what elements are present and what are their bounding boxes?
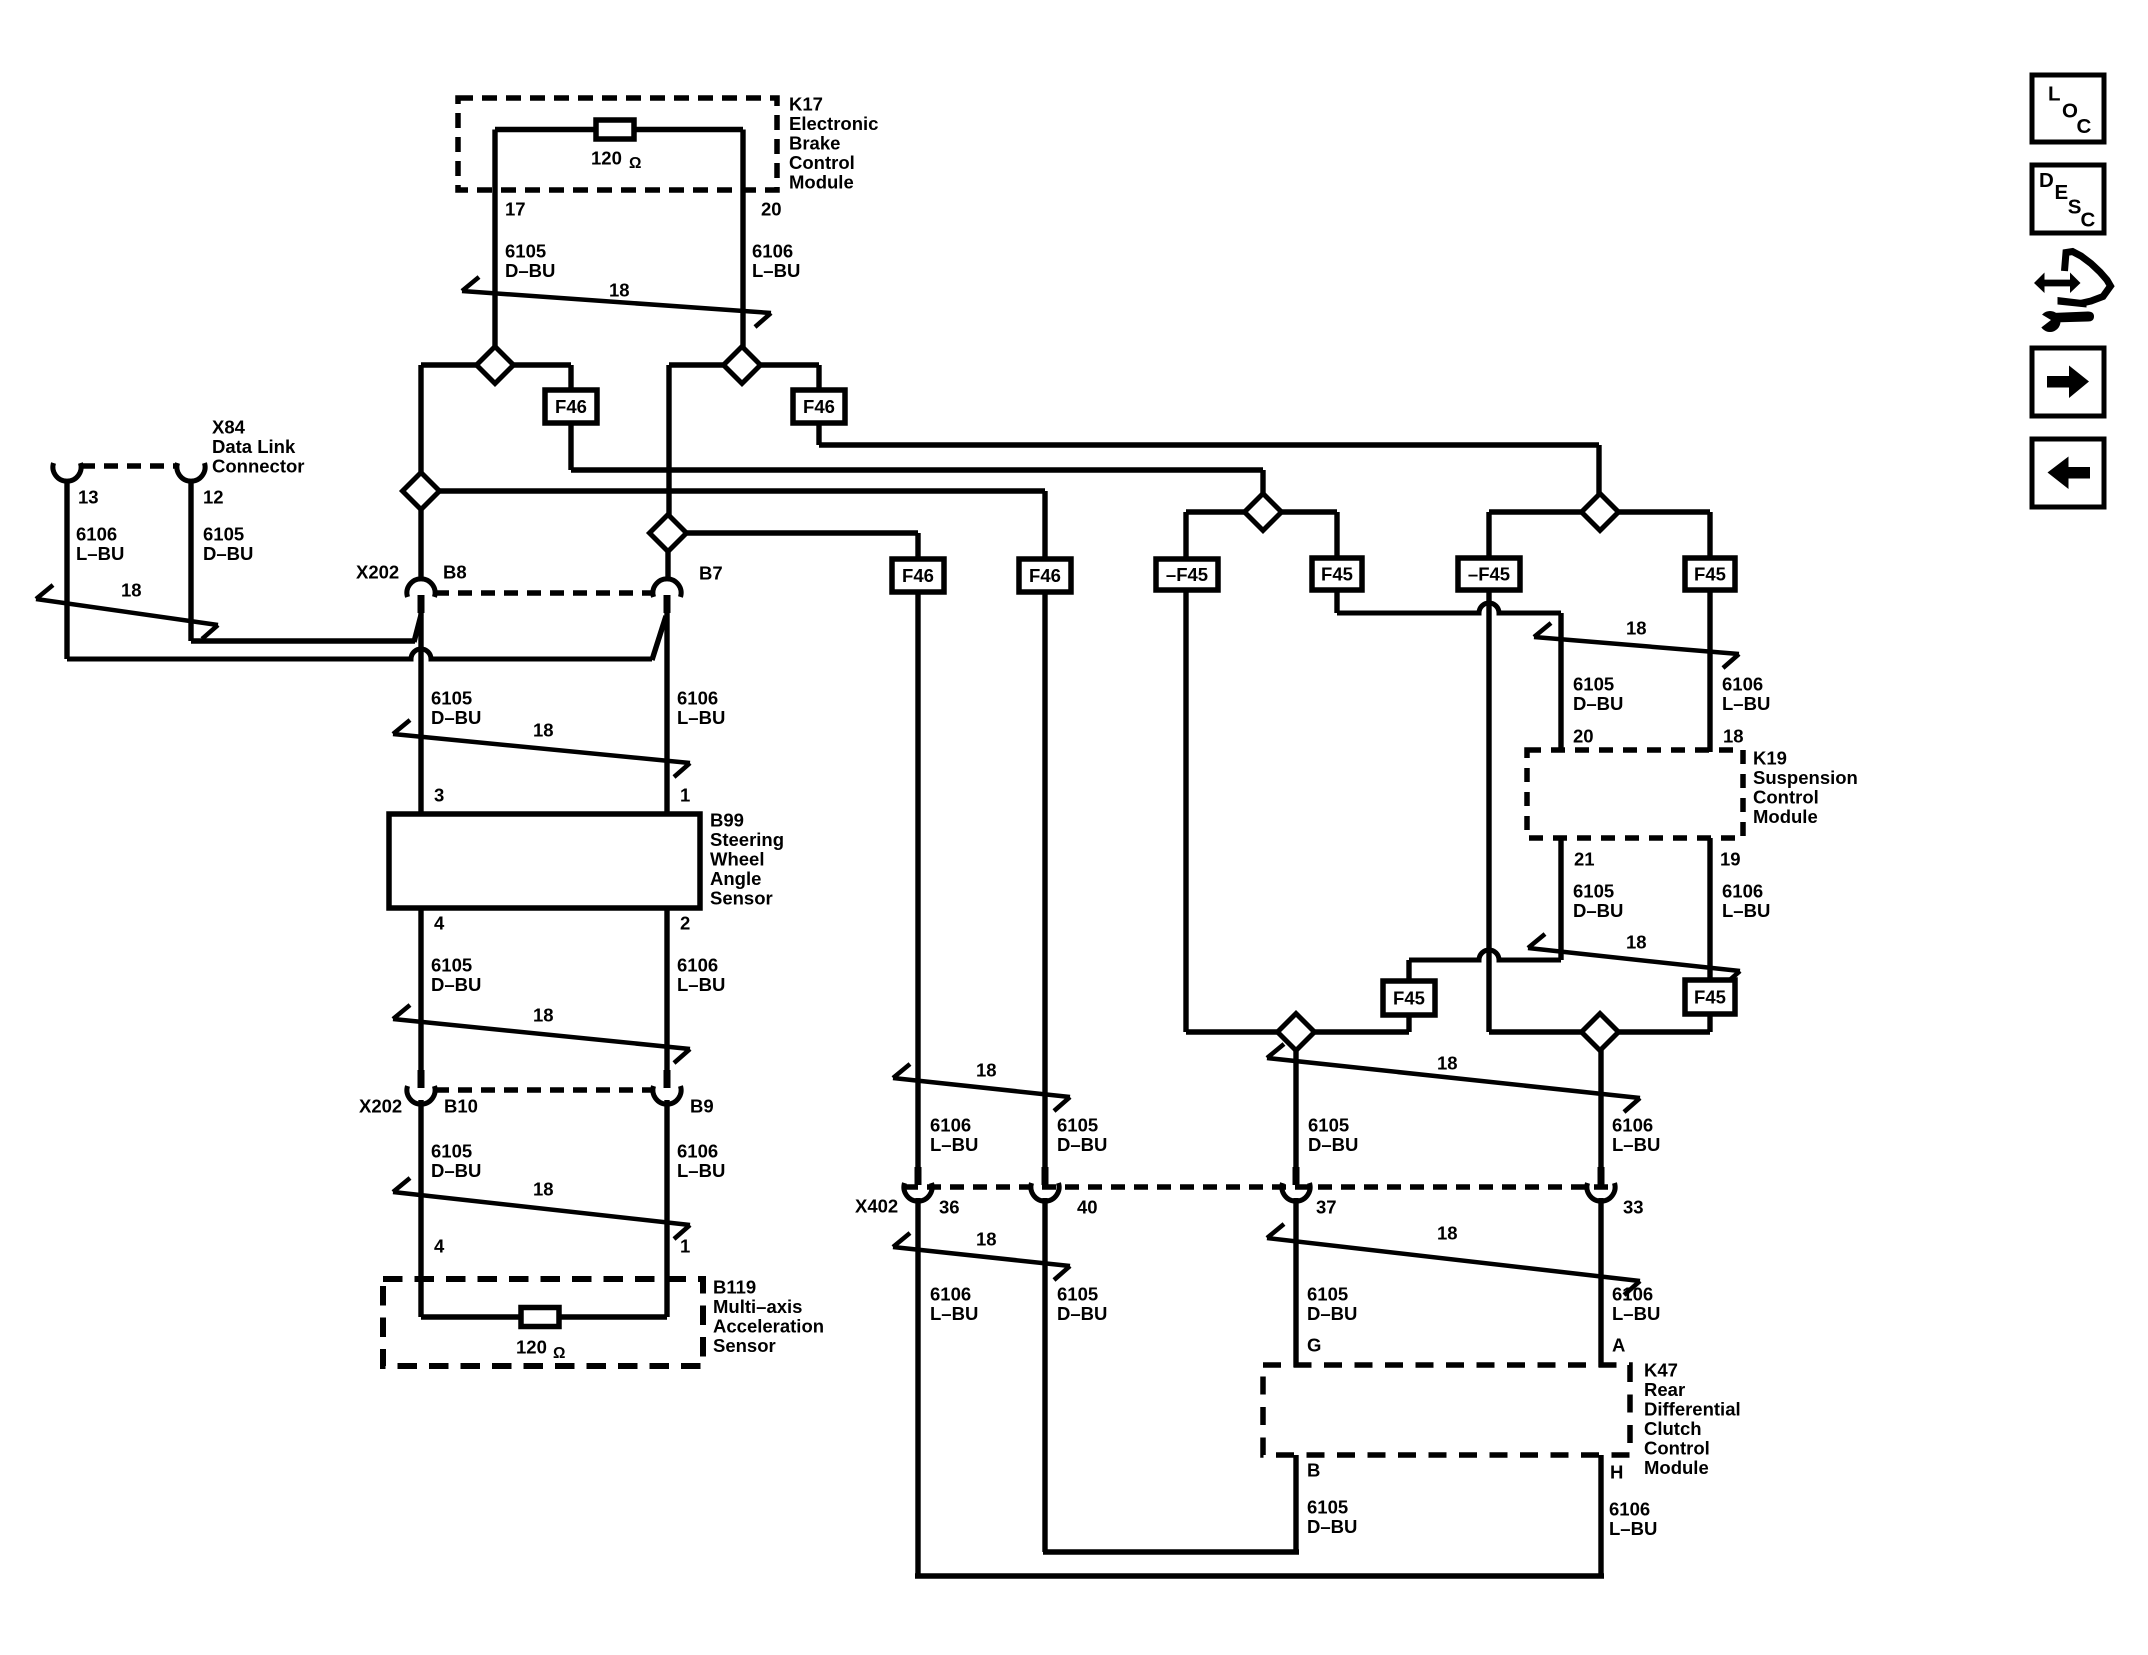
- svg-text:18: 18: [976, 1228, 997, 1249]
- fuse tag F45 (f): [1685, 980, 1735, 1014]
- gauge marker 18 (K17 wires): [462, 277, 771, 327]
- fuse tag F45 (b): [1312, 558, 1362, 590]
- svg-text:120: 120: [591, 147, 622, 168]
- svg-text:B10: B10: [444, 1095, 478, 1116]
- svg-text:L–BU: L–BU: [677, 707, 725, 728]
- svg-text:Ω: Ω: [553, 1345, 565, 1362]
- svg-text:S: S: [2068, 195, 2082, 218]
- wire S4 down to X202 B7: [665, 551, 670, 580]
- svg-text:Wheel: Wheel: [710, 848, 764, 869]
- svg-text:Brake: Brake: [789, 132, 840, 153]
- svg-text:6105: 6105: [1307, 1496, 1348, 1517]
- svg-text:Acceleration: Acceleration: [713, 1315, 824, 1336]
- svg-text:E: E: [2055, 181, 2069, 204]
- connector X202 pin B10 cup: [418, 1070, 425, 1088]
- splice diamond S3: [403, 473, 440, 510]
- svg-text:36: 36: [939, 1196, 960, 1217]
- module K47 Rear Differential Clutch Control Module (dashed outline): [1263, 1365, 1630, 1455]
- wire S3 down to X202 B8: [418, 509, 423, 580]
- svg-text:F45: F45: [1393, 988, 1425, 1009]
- wire -F45-c run to splice S8: [1489, 1029, 1582, 1034]
- svg-text:L: L: [2048, 83, 2061, 106]
- svg-text:13: 13: [78, 486, 99, 507]
- svg-text:B7: B7: [699, 562, 723, 583]
- icon forward arrow box: [2032, 348, 2104, 416]
- wire splice S6 right branch to F45-d: [1618, 509, 1710, 514]
- svg-text:18: 18: [1437, 1222, 1458, 1243]
- icon vehicle-connector with wrench: [2034, 273, 2081, 294]
- connector X402 dashed link: [904, 1184, 1617, 1190]
- svg-text:18: 18: [609, 279, 630, 300]
- splice diamond S6: [1582, 494, 1619, 531]
- fuse tag F46 (C): [892, 559, 944, 592]
- connector X402 pin 33 cup: [1598, 1167, 1605, 1185]
- svg-text:6106: 6106: [1722, 880, 1763, 901]
- wire splice S5 right branch to F45-b: [1281, 509, 1337, 514]
- svg-text:6106: 6106: [1722, 673, 1763, 694]
- wire 6106 L-BU from X84 pin 13: [64, 480, 69, 659]
- gauge marker 18 (above B119): [393, 1178, 690, 1239]
- svg-text:Control: Control: [1644, 1437, 1710, 1458]
- wire F45-b to K19 pin 20 (hops -F45-c wire): [1334, 590, 1339, 613]
- svg-text:F45: F45: [1694, 987, 1726, 1008]
- wire splice S1 right branch to F46-A: [511, 362, 571, 367]
- svg-text:Angle: Angle: [710, 868, 761, 889]
- wire S8 down to X402 pin 33: [1598, 1050, 1603, 1169]
- wire K47 pin H down-left to X402-36 line: [1598, 1455, 1603, 1576]
- svg-text:L–BU: L–BU: [1612, 1303, 1660, 1324]
- svg-text:18: 18: [533, 1004, 554, 1025]
- wire 6106 L-BU F46-C to X402 pin 36: [915, 592, 920, 1169]
- connector X402 pin 36 cup: [915, 1167, 922, 1185]
- svg-text:6106: 6106: [677, 1140, 718, 1161]
- svg-text:L–BU: L–BU: [930, 1303, 978, 1324]
- wire splice S2 right branch to F46-B: [758, 362, 819, 367]
- svg-text:G: G: [1307, 1334, 1321, 1355]
- wire from F46-A down and right to splice S5: [568, 423, 573, 470]
- svg-text:X202: X202: [356, 561, 399, 582]
- svg-text:6106: 6106: [677, 954, 718, 975]
- resistor 120 ohm inside B119: [521, 1308, 559, 1327]
- svg-text:6106: 6106: [1609, 1498, 1650, 1519]
- gauge marker 18 (above X402 left): [893, 1064, 1070, 1111]
- wire 6105 D-BU from X84 pin 12: [188, 480, 193, 641]
- svg-text:D–BU: D–BU: [431, 974, 481, 995]
- svg-text:18: 18: [976, 1059, 997, 1080]
- fuse tag F46 (A): [545, 390, 597, 423]
- wire 6106 L-BU X202 B7 to B99 pin 1: [664, 613, 669, 816]
- splice diamond S4: [650, 515, 687, 552]
- gauge marker 18 (above X402 right): [1267, 1044, 1640, 1112]
- wire X402 pin 40 down (6105 D-BU): [1042, 1198, 1047, 1552]
- svg-text:6106: 6106: [1612, 1114, 1653, 1135]
- wire K19 pin 21 to F45-e (hops -F45-c wire): [1558, 838, 1563, 960]
- module K19 Suspension Control Module (dashed outline): [1527, 750, 1743, 838]
- svg-text:D–BU: D–BU: [1308, 1134, 1358, 1155]
- fuse tag -F45 (c): [1458, 558, 1520, 590]
- svg-text:6105: 6105: [203, 523, 244, 544]
- svg-text:18: 18: [1437, 1052, 1458, 1073]
- component B119 Multi-axis Acceleration Sensor (dashed box): [383, 1279, 703, 1366]
- svg-text:F46: F46: [902, 565, 934, 586]
- svg-text:C: C: [2081, 209, 2096, 232]
- wire B119 internal right: [559, 1314, 667, 1319]
- gauge marker 18 (below X402 left): [893, 1233, 1070, 1280]
- svg-text:L–BU: L–BU: [930, 1134, 978, 1155]
- svg-text:K47: K47: [1644, 1359, 1678, 1380]
- svg-text:Clutch: Clutch: [1644, 1418, 1702, 1439]
- fuse tag -F45 (a): [1156, 559, 1218, 590]
- svg-text:Control: Control: [789, 152, 855, 173]
- gauge marker 18 (below K19): [1528, 934, 1740, 985]
- svg-text:D–BU: D–BU: [505, 260, 555, 281]
- wire B119 internal left: [421, 1314, 521, 1319]
- svg-text:B119: B119: [713, 1276, 756, 1297]
- svg-text:F45: F45: [1694, 564, 1726, 585]
- svg-text:L–BU: L–BU: [1722, 900, 1770, 921]
- component B99 Steering Wheel Angle Sensor (box): [389, 814, 700, 908]
- svg-text:L–BU: L–BU: [677, 1160, 725, 1181]
- fuse tag F46 (B): [793, 390, 845, 423]
- svg-text:C: C: [2077, 115, 2092, 138]
- splice diamond S1: [477, 347, 514, 384]
- wire X402 pin 36 down (6106 L-BU): [915, 1198, 920, 1576]
- svg-text:21: 21: [1574, 848, 1595, 869]
- svg-text:B: B: [1307, 1459, 1320, 1480]
- svg-text:20: 20: [1573, 725, 1594, 746]
- splice diamond S5: [1245, 494, 1282, 531]
- wire S2 branch down (6106 bus): [666, 365, 671, 517]
- wire S1 branch down to splice S3: [418, 365, 423, 475]
- connector X202 pin B9 cup: [664, 1070, 671, 1088]
- svg-text:B9: B9: [690, 1095, 714, 1116]
- svg-text:6106: 6106: [1612, 1283, 1653, 1304]
- svg-text:6106: 6106: [677, 687, 718, 708]
- svg-text:L–BU: L–BU: [1722, 693, 1770, 714]
- svg-text:D–BU: D–BU: [1307, 1516, 1357, 1537]
- svg-text:X202: X202: [359, 1095, 402, 1116]
- splice diamond S2: [724, 347, 761, 384]
- connector X202 pin B8 cup: [418, 595, 425, 613]
- wire splice S5 left branch to -F45-a: [1186, 509, 1245, 514]
- wire S7 down to X402 pin 37: [1293, 1050, 1298, 1169]
- gauge marker 18 (X84 wires): [36, 585, 218, 639]
- svg-text:F46: F46: [803, 396, 835, 417]
- svg-text:Sensor: Sensor: [713, 1335, 776, 1356]
- svg-text:18: 18: [533, 719, 554, 740]
- connector X84 pin 13 cup: [53, 463, 81, 481]
- svg-text:Multi–axis: Multi–axis: [713, 1296, 802, 1317]
- svg-text:4: 4: [434, 912, 445, 933]
- svg-text:D: D: [2039, 169, 2054, 192]
- svg-text:6106: 6106: [930, 1114, 971, 1135]
- module K17 Electronic Brake Control Module (dashed outline): [458, 98, 777, 190]
- svg-text:3: 3: [434, 784, 444, 805]
- gauge marker 18 (below X402 right): [1267, 1224, 1640, 1295]
- svg-text:L–BU: L–BU: [76, 543, 124, 564]
- svg-text:6105: 6105: [505, 240, 546, 261]
- gauge marker 18 (above B99): [393, 720, 690, 777]
- svg-text:33: 33: [1623, 1196, 1644, 1217]
- wire 6106 L-BU X202 B9 to B119 pin 1: [664, 1100, 669, 1317]
- svg-text:Rear: Rear: [1644, 1379, 1685, 1400]
- svg-text:Module: Module: [1753, 806, 1818, 827]
- svg-text:18: 18: [1626, 931, 1647, 952]
- svg-text:L–BU: L–BU: [1612, 1134, 1660, 1155]
- wire -F45-a run to splice S7: [1186, 1029, 1278, 1034]
- splice diamond S7: [1278, 1014, 1315, 1051]
- svg-text:Module: Module: [789, 171, 854, 192]
- svg-text:6105: 6105: [1057, 1283, 1098, 1304]
- fuse tag F45 (e): [1383, 981, 1435, 1015]
- svg-text:D–BU: D–BU: [1057, 1134, 1107, 1155]
- connector X402 pin 40 cup: [1042, 1167, 1049, 1185]
- wire 6105 D-BU X202 B8 to B99 pin 3: [418, 613, 423, 816]
- svg-text:18: 18: [1723, 725, 1744, 746]
- svg-text:L–BU: L–BU: [752, 260, 800, 281]
- svg-text:D–BU: D–BU: [203, 543, 253, 564]
- svg-text:L–BU: L–BU: [1609, 1518, 1657, 1539]
- resistor 120 ohm inside K17: [596, 120, 634, 139]
- connector X202 pin B7 cup: [664, 595, 671, 613]
- svg-text:6106: 6106: [76, 523, 117, 544]
- svg-text:Electronic: Electronic: [789, 113, 878, 134]
- svg-text:Module: Module: [1644, 1457, 1709, 1478]
- svg-text:A: A: [1612, 1334, 1625, 1355]
- svg-text:L–BU: L–BU: [677, 974, 725, 995]
- wire 6105 D-BU F46-D to X402 pin 40: [1042, 592, 1047, 1169]
- svg-text:120: 120: [516, 1336, 547, 1357]
- svg-text:B99: B99: [710, 809, 744, 830]
- svg-text:6105: 6105: [1308, 1114, 1349, 1135]
- svg-text:–F45: –F45: [1468, 564, 1510, 585]
- wire K17 internal left: [495, 127, 596, 132]
- wire X402 pin 37 to K47 pin G: [1293, 1198, 1298, 1367]
- wire -F45-a down to junction row: [1183, 590, 1188, 1032]
- wire -F45-c down to junction row (crossed twice): [1486, 590, 1491, 1032]
- svg-text:D–BU: D–BU: [1057, 1303, 1107, 1324]
- wire splice S3 right branch to F46-D: [421, 488, 1045, 493]
- svg-text:6105: 6105: [1057, 1114, 1098, 1135]
- svg-text:Suspension: Suspension: [1753, 767, 1858, 788]
- wire 6106 L-BU from K17 pin 20 down to splice S2: [740, 130, 745, 350]
- svg-text:D–BU: D–BU: [431, 707, 481, 728]
- splice diamond S8: [1582, 1014, 1619, 1051]
- connector X84 pin 12 cup: [177, 463, 205, 481]
- wire from F46-B down and right to splice S6: [816, 423, 821, 445]
- svg-text:6106: 6106: [930, 1283, 971, 1304]
- fuse tag F46 (D): [1019, 559, 1071, 592]
- gauge marker 18 (above K19): [1534, 623, 1739, 668]
- svg-text:2: 2: [680, 912, 690, 933]
- svg-text:17: 17: [505, 198, 526, 219]
- svg-text:Steering: Steering: [710, 829, 784, 850]
- svg-text:1: 1: [680, 784, 690, 805]
- svg-text:Sensor: Sensor: [710, 887, 773, 908]
- icon back arrow box: [2032, 439, 2104, 507]
- svg-text:K19: K19: [1753, 747, 1787, 768]
- wire X84-13 run to X202 B7 (hops over B8 wire): [67, 649, 652, 659]
- svg-text:B8: B8: [443, 561, 467, 582]
- svg-text:D–BU: D–BU: [1573, 693, 1623, 714]
- wire K19 pin 19 down to F45-f: [1707, 838, 1712, 982]
- svg-text:D–BU: D–BU: [1307, 1303, 1357, 1324]
- connector X84 dashed link: [81, 463, 177, 469]
- wire K47 pin B down-left to X402-40 line: [1293, 1455, 1298, 1552]
- svg-text:–F45: –F45: [1166, 564, 1208, 585]
- wire X84-12 run to X202 B8: [191, 638, 415, 643]
- svg-text:6105: 6105: [431, 1140, 472, 1161]
- fuse tag F45 (d): [1685, 558, 1735, 590]
- svg-text:37: 37: [1316, 1196, 1337, 1217]
- svg-text:Data Link: Data Link: [212, 436, 296, 457]
- wire 6105 D-BU from K17 pin 17 down to splice S1: [492, 130, 497, 350]
- svg-text:Control: Control: [1753, 786, 1819, 807]
- svg-text:40: 40: [1077, 1196, 1098, 1217]
- svg-text:4: 4: [434, 1235, 445, 1256]
- wire 6105 D-BU B99 pin 4 to X202 B10: [418, 908, 423, 1071]
- svg-text:F46: F46: [555, 396, 587, 417]
- svg-text:Differential: Differential: [1644, 1398, 1741, 1419]
- svg-text:X84: X84: [212, 416, 246, 437]
- wire splice S4 right branch to F46-C: [668, 530, 918, 535]
- wire F45-f down to splice S8: [1707, 1014, 1712, 1032]
- wire splice S2 left branch: [669, 362, 726, 367]
- svg-text:19: 19: [1720, 848, 1741, 869]
- icon LOC box: [2032, 75, 2104, 142]
- svg-text:F46: F46: [1029, 565, 1061, 586]
- svg-text:Connector: Connector: [212, 455, 305, 476]
- svg-text:6105: 6105: [1307, 1283, 1348, 1304]
- wire 6106 L-BU B99 pin 2 to X202 B9: [664, 908, 669, 1071]
- wire K17 internal right: [634, 127, 743, 132]
- connector X202 dashed link (B8-B7): [435, 590, 653, 596]
- svg-text:1: 1: [680, 1235, 690, 1256]
- svg-text:D–BU: D–BU: [431, 1160, 481, 1181]
- svg-text:D–BU: D–BU: [1573, 900, 1623, 921]
- icon DESC box: [2032, 165, 2104, 233]
- svg-text:H: H: [1610, 1461, 1623, 1482]
- connector X202 dashed link (B10-B9): [435, 1087, 653, 1093]
- svg-text:X402: X402: [855, 1195, 898, 1216]
- svg-text:12: 12: [203, 486, 224, 507]
- wire F45-e down to splice S7: [1406, 1015, 1411, 1032]
- svg-text:6105: 6105: [431, 954, 472, 975]
- svg-text:18: 18: [533, 1178, 554, 1199]
- svg-text:Ω: Ω: [629, 155, 641, 172]
- wire 6105 D-BU X202 B10 to B119 pin 4: [418, 1100, 423, 1317]
- wire splice S1 left branch: [421, 362, 479, 367]
- gauge marker 18 (below B99): [393, 1005, 690, 1063]
- svg-text:6105: 6105: [1573, 880, 1614, 901]
- wire splice S6 left branch to -F45-c: [1489, 509, 1582, 514]
- wire X402 pin 33 to K47 pin A: [1598, 1198, 1603, 1367]
- svg-text:K17: K17: [789, 93, 823, 114]
- wire F45-d to K19 pin 18: [1707, 590, 1712, 752]
- svg-text:F45: F45: [1321, 564, 1353, 585]
- svg-text:18: 18: [121, 579, 142, 600]
- svg-text:6106: 6106: [752, 240, 793, 261]
- svg-text:20: 20: [761, 198, 782, 219]
- svg-text:18: 18: [1626, 617, 1647, 638]
- svg-text:6105: 6105: [1573, 673, 1614, 694]
- svg-text:6105: 6105: [431, 687, 472, 708]
- connector X402 pin 37 cup: [1293, 1167, 1300, 1185]
